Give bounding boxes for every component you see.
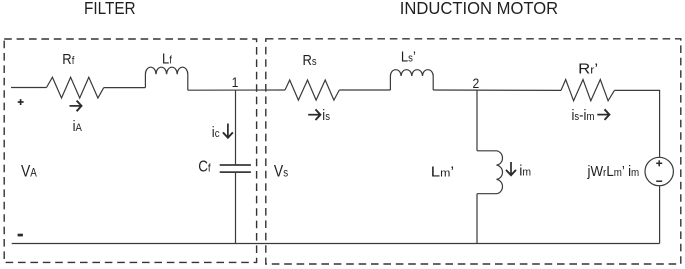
current arrow iA — [70, 101, 82, 112]
+ terminal — [18, 99, 24, 105]
capacitor Cf — [220, 165, 251, 172]
bottom rail wire — [12, 243, 660, 245]
wire: left + terminal to resistor Rf — [11, 87, 47, 89]
filter enclosure dashed box — [4, 39, 256, 262]
svg-text:INDUCTION MOTOR: INDUCTION MOTOR — [400, 0, 558, 18]
svg-text:iA: iA — [73, 117, 82, 134]
resistor Rs — [285, 80, 339, 100]
wire: Lf through node 1 to resistor Rs — [188, 89, 285, 91]
inductor Lf — [145, 67, 187, 90]
inductor Ls' — [390, 70, 433, 90]
wire: Rr' to voltage source — [614, 90, 659, 157]
wire: Cf to bottom rail — [235, 172, 237, 243]
svg-text:jWrLm’ im: jWrLm’ im — [587, 164, 640, 181]
svg-text:ic: ic — [212, 123, 220, 140]
inductor Lm' — [477, 151, 503, 194]
svg-text:Lm’: Lm’ — [431, 164, 454, 180]
resistor Rr' — [561, 80, 614, 101]
svg-text:Rs: Rs — [303, 51, 317, 68]
wire: node 2 down to inductor Lm' — [476, 90, 478, 151]
svg-text:Lf: Lf — [162, 50, 172, 67]
wire: node 1 down to capacitor Cf — [235, 90, 237, 165]
current arrow im — [506, 162, 516, 175]
current arrow ic — [223, 124, 233, 138]
wire: Lm' to bottom rail — [476, 194, 478, 244]
induction motor enclosure dashed box — [266, 39, 681, 264]
svg-text:Rf: Rf — [62, 50, 74, 67]
current arrow is-im — [597, 109, 609, 120]
voltage source jWrLm'im — [645, 157, 673, 185]
svg-text:Cf: Cf — [198, 159, 211, 176]
svg-text:Ls’: Ls’ — [401, 47, 416, 64]
wire: Ls' through node 2 to resistor Rr' — [433, 89, 561, 91]
current arrow is — [308, 109, 320, 120]
svg-text:Rr’: Rr’ — [578, 61, 598, 77]
wire: Rf to Lf — [104, 87, 146, 89]
wire: voltage source to bottom rail — [659, 186, 661, 244]
svg-text:is-im: is-im — [572, 106, 595, 123]
svg-text:Vs: Vs — [274, 162, 289, 181]
resistor Rf — [47, 77, 104, 98]
svg-text:im: im — [519, 163, 531, 179]
wire: Rs to Ls' — [339, 89, 390, 91]
svg-text:VA: VA — [21, 162, 37, 181]
- terminal — [18, 234, 23, 237]
svg-text:is: is — [322, 106, 330, 123]
svg-text:1: 1 — [232, 74, 239, 90]
svg-text:FILTER: FILTER — [84, 0, 136, 18]
svg-text:2: 2 — [473, 75, 480, 91]
